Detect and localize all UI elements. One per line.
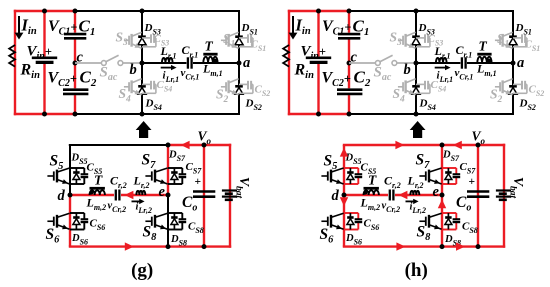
svg-text:VC2+: VC2+ <box>322 70 351 90</box>
svg-text:CS6: CS6 <box>364 218 380 233</box>
wire: g left leg upper segment <box>69 145 71 168</box>
svg-text:DS2: DS2 <box>245 98 262 113</box>
wire: g output top bus left section <box>69 144 168 146</box>
svg-text:Lm,2: Lm,2 <box>360 196 381 213</box>
svg-text:CS7: CS7 <box>460 161 477 176</box>
capacitor CS6 g <box>81 218 89 220</box>
transistor S8 h <box>419 220 425 222</box>
diode DS6 h <box>344 212 358 214</box>
wire: g red leg segment below C2 <box>74 95 76 114</box>
node e h <box>440 193 445 198</box>
svg-text:b: b <box>130 62 137 78</box>
transformer T1 core h <box>477 53 491 56</box>
junction dots top circuit g <box>42 9 47 14</box>
svg-text:Iin: Iin <box>21 16 37 38</box>
transistor S1 g <box>221 39 226 41</box>
capacitor CS4 h <box>416 83 425 85</box>
wire: g output bottom bus red <box>69 245 231 247</box>
transistor S7 g <box>145 175 151 177</box>
wire: g left leg rect span segment <box>69 168 71 184</box>
diode DS5 h <box>344 167 358 169</box>
diode DS4 g <box>138 85 146 88</box>
svg-text:iLr,2: iLr,2 <box>136 202 152 216</box>
diode DS2 g <box>235 85 243 88</box>
svg-text:DS6: DS6 <box>71 233 88 247</box>
capacitor CS2 g <box>239 83 248 85</box>
current arrow top bus left h <box>395 141 404 149</box>
svg-text:DS1: DS1 <box>241 22 258 37</box>
capacitor Co g <box>193 190 215 193</box>
diode DS1 g <box>235 35 243 38</box>
wire: h bottom bus black <box>349 113 514 115</box>
diode DS5 g <box>70 167 84 169</box>
wire: h resonant branch b to Cr1 <box>416 62 460 64</box>
capacitor CS3 g <box>142 37 151 39</box>
node c h <box>347 61 352 66</box>
wire: g resonant branch Cr1 to a <box>193 62 239 64</box>
wire: g middle leg node e to bottom <box>167 195 169 247</box>
transistor S8 g <box>145 220 151 222</box>
transistor S1 h <box>495 39 500 41</box>
current arrow resonant branch h <box>398 191 407 199</box>
diode DS6 g <box>70 212 84 214</box>
wire: h red leg segment below C2 <box>348 95 350 114</box>
transistor S6 h <box>321 220 327 222</box>
wire: g resonant branch b to Cr1 <box>142 62 186 64</box>
wire: h left leg node d to bottom <box>343 195 345 247</box>
wire: h red input loop top <box>288 10 349 12</box>
svg-text:S6: S6 <box>320 226 335 246</box>
wire: g left leg to node d <box>69 184 71 195</box>
current arrow iLr1 h <box>435 67 447 69</box>
svg-text:CS2: CS2 <box>529 84 545 99</box>
wire: h middle leg node e to bottom <box>441 195 443 247</box>
wire: h resonant branch Cr1 to a <box>467 62 513 64</box>
transistor S7 h <box>419 175 425 177</box>
svg-text:Vin+: Vin+ <box>27 44 52 63</box>
svg-text:CS8: CS8 <box>188 221 204 236</box>
svg-text:CS1: CS1 <box>525 39 541 54</box>
resistor Rin h <box>283 45 289 67</box>
svg-text:+: + <box>469 176 476 188</box>
svg-text:C2: C2 <box>80 68 97 90</box>
switch Sac h <box>349 62 376 64</box>
svg-text:S6: S6 <box>46 226 61 246</box>
capacitor CS5 g <box>81 173 89 175</box>
current arrow bottom bus left h <box>396 242 405 250</box>
svg-text:CS8: CS8 <box>462 221 478 236</box>
capacitor Cr1 g <box>187 57 189 68</box>
current arrow resonant branch g <box>124 191 133 199</box>
svg-text:vCr,1: vCr,1 <box>455 67 474 82</box>
voltage source Vin battery g <box>32 56 57 59</box>
svg-text:Lm,2: Lm,2 <box>86 196 107 213</box>
wire: h left leg to node d <box>343 184 345 195</box>
svg-text:DS7: DS7 <box>442 150 460 164</box>
svg-text:DS4: DS4 <box>145 98 162 113</box>
wire: h left leg rect span segment <box>343 168 345 184</box>
svg-text:d: d <box>58 188 66 204</box>
wire: h output bottom bus red <box>343 245 505 247</box>
transformer T1 core g <box>203 53 217 56</box>
current arrow Iin g <box>18 16 20 34</box>
capacitor CS1 g <box>239 37 248 39</box>
wire: g output top bus right section red <box>168 144 231 146</box>
svg-text:vCr,1: vCr,1 <box>181 67 200 82</box>
transistor S4 g <box>124 86 129 88</box>
node b h <box>414 61 419 66</box>
wire: h red Vin leg upper <box>317 11 319 56</box>
wire: g bottom bus black <box>75 113 240 115</box>
diode DS8 h <box>442 212 456 214</box>
diode DS1 h <box>509 35 517 38</box>
node d h <box>342 193 347 198</box>
voltage source Vin battery h <box>306 56 331 59</box>
node a h <box>511 61 516 66</box>
svg-text:Rin: Rin <box>20 62 41 82</box>
transformer T2 winding Lm2 g <box>90 190 105 195</box>
transformer T1 winding Lm1 h <box>477 57 491 63</box>
svg-text:T: T <box>94 173 103 188</box>
wire: g left leg node d to bottom <box>69 195 71 247</box>
wire: h battery leg red <box>503 144 505 248</box>
wire: g middle leg top to node e red <box>167 145 169 195</box>
svg-text:e: e <box>159 184 166 200</box>
wire: h bridge leg b vertical <box>415 11 417 114</box>
wire: h red input loop bottom <box>288 113 349 115</box>
svg-text:S7: S7 <box>142 152 157 172</box>
current arrow iLr1 g <box>161 67 173 69</box>
svg-text:vCr,2: vCr,2 <box>382 201 401 215</box>
svg-text:DS7: DS7 <box>168 150 186 164</box>
svg-text:Cr,1: Cr,1 <box>182 43 199 60</box>
capacitor CS3 h <box>416 37 425 39</box>
wire: h middle leg top to node e red <box>441 145 443 195</box>
svg-text:T: T <box>368 173 377 188</box>
svg-text:iLr,2: iLr,2 <box>410 202 426 216</box>
node c g <box>73 61 78 66</box>
wire: h red Vin leg lower <box>317 64 319 114</box>
block arrow between circuits h <box>410 121 426 138</box>
svg-text:Vbat: Vbat <box>234 177 253 199</box>
block arrow between circuits g <box>136 121 152 138</box>
node e g <box>166 193 171 198</box>
wire: g battery leg red <box>229 144 231 248</box>
current arrow top bus g <box>181 141 190 149</box>
capacitor C2 g <box>63 88 88 91</box>
wire: h red input loop left rail <box>288 10 290 115</box>
capacitor CS1 h <box>513 37 522 39</box>
wire: g red input loop bottom <box>14 113 75 115</box>
switch Sac g <box>75 62 102 64</box>
capacitor CS8 h <box>453 218 461 220</box>
svg-text:a: a <box>517 55 524 71</box>
svg-text:CS7: CS7 <box>186 161 203 176</box>
capacitor CS7 g <box>179 173 187 175</box>
wire: g top bus black <box>75 10 240 12</box>
node d g <box>68 193 73 198</box>
capacitor Cr2 h <box>389 190 391 201</box>
svg-text:C1: C1 <box>79 17 96 39</box>
wire: g resonant branch d to Cr2 red <box>70 194 114 196</box>
svg-text:T: T <box>205 39 214 54</box>
transistor S6 g <box>47 220 53 222</box>
svg-text:DS5: DS5 <box>71 153 88 167</box>
svg-text:DS2: DS2 <box>519 98 536 113</box>
capacitor CS4 g <box>142 83 151 85</box>
svg-text:C1: C1 <box>353 17 370 39</box>
current arrow iLr2 h <box>406 200 415 202</box>
current arrow bottom bus right h <box>456 242 465 250</box>
svg-text:iLr,1: iLr,1 <box>163 70 180 85</box>
wire: h output top bus left section <box>343 144 442 146</box>
capacitor C1 g <box>64 33 86 36</box>
svg-text:Sac: Sac <box>374 65 392 84</box>
diode DS7 h <box>442 167 456 169</box>
capacitor Cr2 g <box>115 190 117 201</box>
wire: h output capacitor leg red <box>477 145 479 247</box>
inductor Lr2 h <box>410 191 419 195</box>
node b g <box>140 61 145 66</box>
inductor Lr1 g <box>162 58 173 63</box>
svg-text:e: e <box>433 184 440 200</box>
svg-text:CS6: CS6 <box>90 218 106 233</box>
current arrow left leg down h <box>340 197 348 206</box>
current arrow top bus right h <box>453 141 462 149</box>
wire: h resonant branch d to Cr2 red <box>344 194 388 196</box>
svg-text:Cr,2: Cr,2 <box>384 174 401 191</box>
svg-text:Iin: Iin <box>295 16 311 38</box>
wire: g red Vin leg lower <box>43 64 45 114</box>
transistor S3 h <box>398 39 403 41</box>
svg-text:S3: S3 <box>390 30 403 49</box>
capacitor C2 h <box>337 88 362 91</box>
svg-text:b: b <box>404 62 411 78</box>
junction dots top circuit h <box>316 9 321 14</box>
diode DS2 h <box>509 85 517 88</box>
transistor S5 g <box>47 175 53 177</box>
inductor Lr1 h <box>436 58 447 63</box>
svg-text:(h): (h) <box>405 260 428 281</box>
svg-text:+: + <box>195 176 202 188</box>
capacitor Cr1 h <box>461 57 463 68</box>
diode DS7 g <box>168 167 182 169</box>
svg-text:Vin+: Vin+ <box>301 44 326 63</box>
svg-text:S5: S5 <box>50 153 64 173</box>
svg-text:Rin: Rin <box>294 62 315 82</box>
wire: h output top bus right section red <box>442 144 505 146</box>
wire: g bridge leg b vertical <box>141 11 143 114</box>
wire: g resonant branch Cr2 to e red <box>121 194 168 196</box>
wire: g red input loop left rail <box>14 10 16 115</box>
current arrow Iin h <box>292 16 294 34</box>
transistor S3 g <box>124 39 129 41</box>
svg-text:DS4: DS4 <box>419 98 436 113</box>
wire: h top bus black <box>349 10 514 12</box>
wire: h red leg segment C1 to C2 through node c <box>348 40 350 89</box>
svg-text:DS1: DS1 <box>515 22 532 37</box>
svg-text:iLr,1: iLr,1 <box>437 70 454 85</box>
svg-text:S3: S3 <box>116 30 129 49</box>
inductor Lr2 g <box>136 191 145 195</box>
junction dots output circuit h <box>440 143 445 148</box>
current arrow bottom bus g <box>125 242 134 250</box>
transistor S2 h <box>495 86 500 88</box>
svg-text:Cr,1: Cr,1 <box>456 43 473 60</box>
transistor S5 h <box>321 175 327 177</box>
capacitor CS2 h <box>513 83 522 85</box>
svg-text:Vbat: Vbat <box>508 177 527 199</box>
wire: g red C1/C2 leg segment above C1 <box>74 11 76 33</box>
wire: g red input loop top <box>14 10 75 12</box>
diode DS3 g <box>138 35 146 38</box>
wire: g bridge leg a vertical <box>238 10 240 115</box>
capacitor CS8 g <box>179 218 187 220</box>
svg-text:Sac: Sac <box>100 65 118 84</box>
wire: h bridge leg a vertical <box>512 10 514 115</box>
transformer T2 core g <box>90 187 105 190</box>
svg-text:T: T <box>479 39 488 54</box>
diode DS8 g <box>168 212 182 214</box>
wire: h left leg upper segment <box>343 145 345 168</box>
svg-text:a: a <box>243 55 250 71</box>
capacitor CS7 h <box>453 173 461 175</box>
svg-text:C2: C2 <box>354 68 371 90</box>
wire: h resonant branch Cr2 to e red <box>395 194 442 196</box>
transformer T2 core h <box>364 187 379 190</box>
battery Vbat g <box>222 189 237 191</box>
capacitor CS6 h <box>355 218 363 220</box>
node a g <box>237 61 242 66</box>
junction dots output circuit g <box>166 143 171 148</box>
transistor S4 h <box>398 86 403 88</box>
diode DS3 h <box>412 35 420 38</box>
wire: g red Vin leg upper <box>43 11 45 56</box>
svg-text:(g): (g) <box>131 260 153 281</box>
current arrow middle leg up h <box>438 199 446 208</box>
resistor Rin g <box>9 45 15 67</box>
svg-text:Cr,2: Cr,2 <box>110 174 127 191</box>
svg-text:S5: S5 <box>324 153 338 173</box>
transistor S2 g <box>221 86 226 88</box>
svg-text:DS6: DS6 <box>345 233 362 247</box>
svg-text:S7: S7 <box>416 152 431 172</box>
battery Vbat h <box>496 189 511 191</box>
svg-text:VC2+: VC2+ <box>48 70 77 90</box>
capacitor C1 h <box>338 33 360 36</box>
capacitor CS5 h <box>355 173 363 175</box>
svg-text:vCr,2: vCr,2 <box>108 201 127 215</box>
transformer T1 winding Lm1 g <box>203 57 217 63</box>
wire: g output capacitor leg red <box>203 145 205 247</box>
svg-text:d: d <box>332 188 340 204</box>
transformer T2 winding Lm2 h <box>364 190 379 195</box>
current arrow iLr2 g <box>132 200 141 202</box>
capacitor Co h <box>467 190 489 193</box>
svg-text:CS2: CS2 <box>255 84 271 99</box>
diode DS4 h <box>412 85 420 88</box>
current arrow left leg up h <box>340 148 348 157</box>
wire: g red leg segment C1 to C2 through node c <box>74 40 76 89</box>
svg-text:CS1: CS1 <box>251 39 267 54</box>
wire: h red C1/C2 leg segment above C1 <box>348 11 350 33</box>
